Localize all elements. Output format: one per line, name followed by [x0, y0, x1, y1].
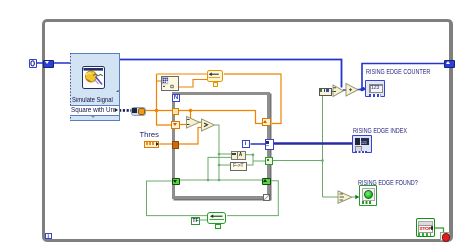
- shift register right for loop (orange): [262, 118, 272, 127]
- Simulate Signal left dashed edge: [70, 53, 71, 120]
- bool to 0-1 node: [319, 88, 332, 96]
- shift register left for loop: [171, 121, 180, 130]
- TF boolean constant: [191, 217, 200, 225]
- while loop: [42, 19, 453, 242]
- index array indicator: [352, 135, 372, 153]
- wire: collector output to feedback init: [179, 80, 213, 88]
- shift register right (while loop): [444, 60, 455, 68]
- Simulate Signal icon: [82, 66, 105, 89]
- wire: boolean vertical bus: [322, 94, 324, 198]
- shift register right green: [262, 178, 271, 186]
- Simulate Signal express VI: [70, 53, 120, 121]
- wire: add to increment: [343, 89, 347, 91]
- wire: Thres tunnel to compare lower input: [179, 128, 203, 145]
- feedback node initializer: [213, 82, 219, 87]
- index label: [353, 128, 407, 135]
- wire: increment output to counter indicator and up to right shift register: [358, 89, 365, 91]
- compare triangle: [202, 119, 215, 131]
- boolean tunnel out: [265, 157, 273, 165]
- wire: junction vertical up to collector and down to shift register: [157, 74, 174, 125]
- wire: boolean tunnel out to vertical bus: [273, 160, 323, 162]
- Thres label: [140, 131, 159, 139]
- A node (and array elements): [231, 151, 246, 160]
- row expand arrow: [115, 108, 118, 112]
- wire: left shift register to subtract: [179, 124, 188, 126]
- subtract triangle: [187, 117, 200, 129]
- add triangle: [333, 85, 344, 97]
- wire: index array out of loop to indicator: [273, 142, 353, 145]
- Thres constant: [144, 141, 159, 149]
- wire: init 0 to left shift register: [37, 62, 44, 64]
- numeric constant 0: [29, 59, 37, 69]
- junction dot green bus: [321, 159, 324, 162]
- wire: i terminal to indexing tunnel: [251, 143, 266, 145]
- wire: bottom shift register run: [180, 179, 263, 181]
- wire: simulate signal out across to add: [120, 60, 342, 88]
- green feedback initializer: [215, 224, 221, 229]
- wire: left shift register to simulate signal: [53, 62, 71, 64]
- increment triangle: [346, 84, 358, 97]
- wire: A-node output to boolean tunnel: [245, 155, 266, 161]
- wire: stub into collector input: [157, 80, 162, 82]
- iteration terminal i (for loop): [242, 140, 250, 148]
- F to T node: [230, 162, 247, 171]
- tunnel thres in: [172, 141, 180, 149]
- for loop: [172, 92, 270, 199]
- stop button terminal: [416, 218, 435, 237]
- shift register left (while loop): [43, 60, 54, 68]
- wire: bus to or-array gate: [323, 196, 339, 198]
- resize mark on right edge: [116, 90, 119, 93]
- collector express VI: [161, 76, 179, 91]
- wire: green feedback node output wrap to left shift register outer terminal: [147, 181, 208, 216]
- Square with Uniform row: [70, 105, 119, 116]
- wire: inside for loop top orange run: [179, 111, 263, 124]
- for loop resize handle: [263, 194, 270, 201]
- wire: branch to A-node input: [219, 153, 231, 155]
- wire: feedback node output left to collector column: [157, 73, 207, 75]
- feedback node: [207, 70, 223, 82]
- junction dot green: [252, 153, 255, 156]
- wire: branch to F-T node input: [219, 164, 231, 166]
- counter indicator: [365, 80, 385, 97]
- LED indicator: [359, 185, 377, 206]
- shift register left green: [172, 178, 181, 186]
- iteration terminal i (while loop): [45, 233, 52, 240]
- wire: previous value up into A-node second input: [208, 157, 231, 180]
- wire: green shift register wrap-around to feedback node: [227, 181, 278, 216]
- junction dots green: [218, 153, 221, 156]
- wire: boolean compare output down the for loop: [214, 125, 219, 180]
- wire: F-T output joining: [246, 155, 253, 165]
- conditional terminal: [440, 232, 449, 241]
- wire: bool-to-01 to add: [331, 91, 337, 93]
- wire: gate output to LED: [351, 196, 359, 198]
- junction dot blue: [360, 88, 363, 91]
- or array elements gate: [338, 191, 352, 203]
- wire: Thres constant to tunnel: [160, 143, 174, 145]
- found label: [358, 180, 418, 187]
- junction dot orange: [155, 109, 158, 112]
- wire: subtract to compare: [199, 121, 203, 123]
- indexing tunnel: [265, 139, 274, 150]
- wire: converter to for-loop tunnel: [145, 110, 173, 112]
- wire: feedback node right wrap-around to for-loop right shift register: [224, 74, 281, 124]
- Simulate Signal title: [72, 97, 113, 104]
- counter label: [366, 69, 430, 76]
- tunnel signal in: [172, 108, 180, 116]
- wire: stop button to conditional terminal: [434, 228, 444, 232]
- wire: drop into subtract input: [190, 111, 192, 120]
- bottom expand nub: [91, 116, 95, 118]
- for loop count terminal N: [172, 94, 180, 102]
- terminal arrow into counter: [363, 87, 367, 91]
- convert from dynamic data: [131, 107, 147, 116]
- green feedback node: [207, 212, 226, 224]
- terminal arrow into LED: [355, 195, 359, 199]
- wire: dynamic data SimSig to converter: [119, 109, 131, 112]
- junction dot orange inside loop: [189, 109, 192, 112]
- wire: TF constant to green feedback node initializer: [200, 219, 207, 221]
